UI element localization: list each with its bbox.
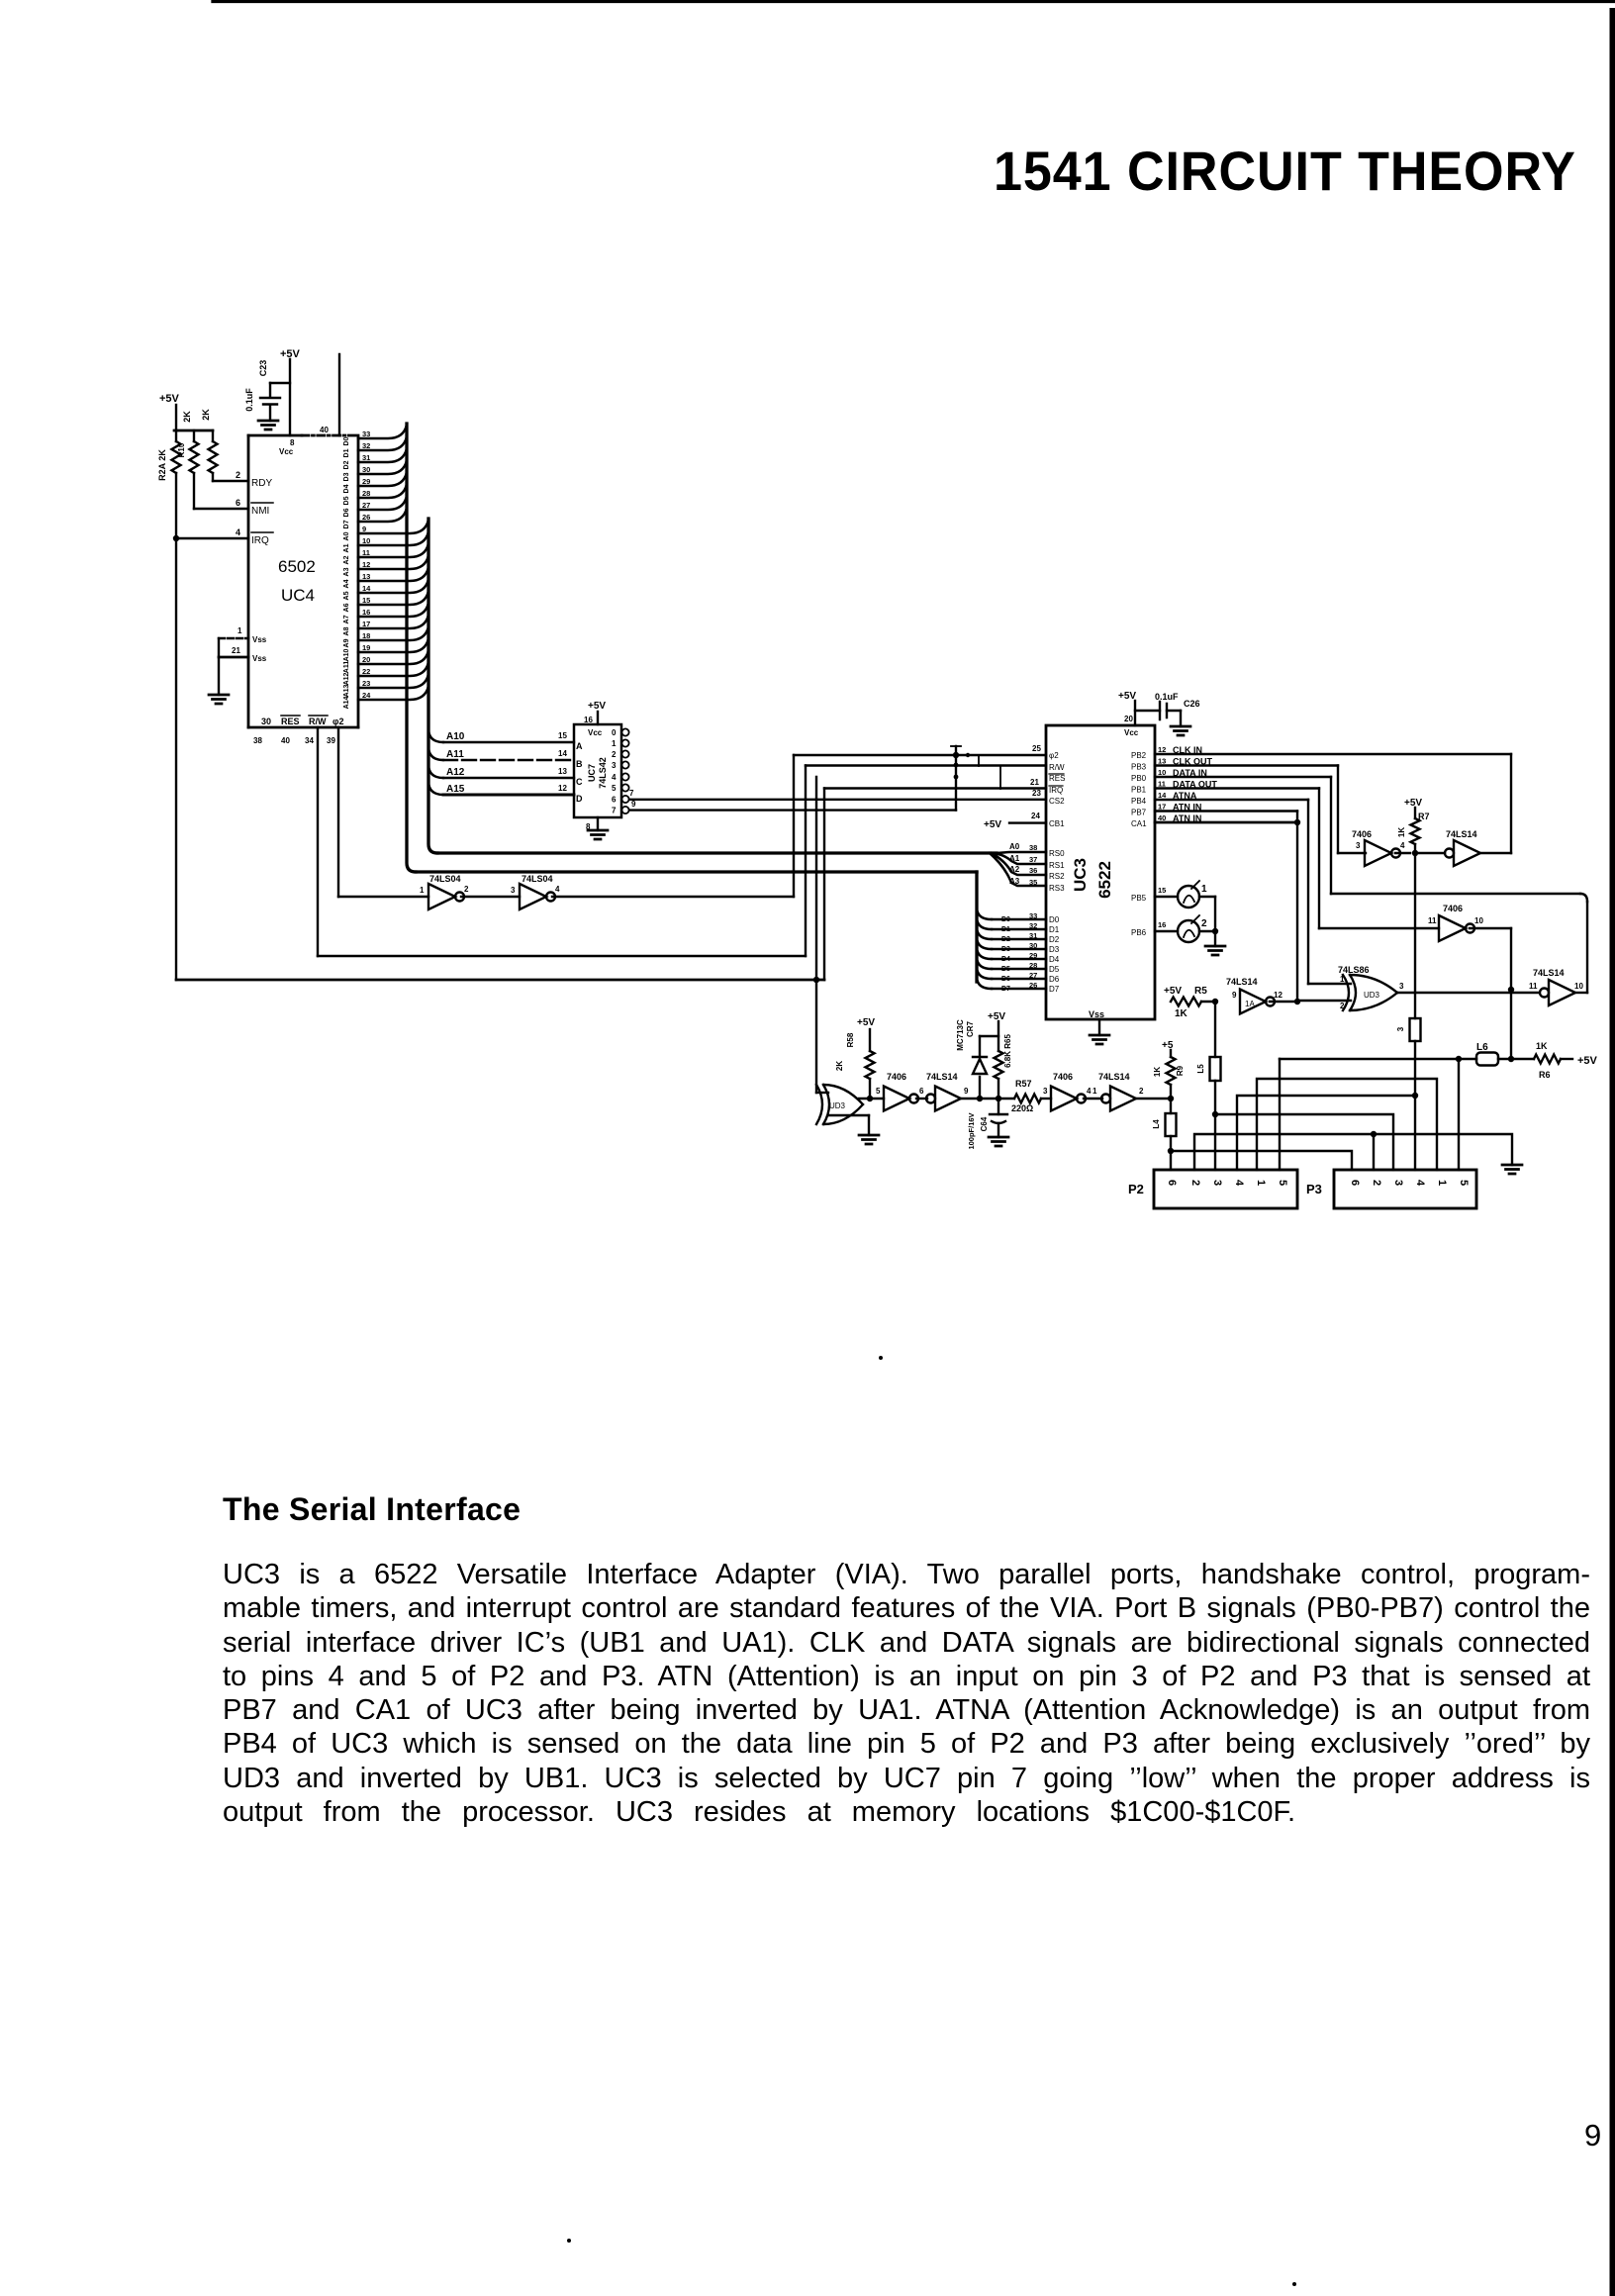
wire XOR output to 74LS14 <box>1397 992 1539 994</box>
svg-text:R6: R6 <box>1539 1070 1551 1080</box>
svg-text:D6: D6 <box>1001 976 1010 983</box>
svg-text:11: 11 <box>1158 780 1166 789</box>
svg-text:+5V: +5V <box>1118 691 1136 702</box>
wire P2 pin 1 drop <box>1170 1151 1172 1170</box>
svg-text:A: A <box>576 741 583 751</box>
wire data bus to UC3 <box>416 870 977 873</box>
svg-text:4: 4 <box>1400 841 1405 850</box>
svg-text:A6: A6 <box>343 603 350 612</box>
svg-text:RS1: RS1 <box>1049 861 1065 870</box>
svg-text:R10: R10 <box>177 442 186 457</box>
wire DATA node from 7406 <box>1470 927 1511 929</box>
svg-text:R7: R7 <box>1418 812 1430 821</box>
IC UC3 6522 <box>1046 725 1155 1019</box>
svg-text:2: 2 <box>1139 1087 1144 1096</box>
svg-text:L4: L4 <box>1152 1119 1161 1129</box>
svg-text:16: 16 <box>362 608 370 617</box>
svg-text:9: 9 <box>964 1087 969 1096</box>
svg-text:UC4: UC4 <box>281 586 315 605</box>
svg-text:A13: A13 <box>343 684 350 697</box>
svg-text:R5: R5 <box>1194 986 1207 997</box>
ground below C26 <box>1171 726 1190 735</box>
svg-text:B: B <box>576 759 583 769</box>
wire to UC4 pin 40 <box>338 354 340 435</box>
svg-text:10: 10 <box>362 536 370 545</box>
svg-text:30: 30 <box>362 465 370 474</box>
wire A15 to UC7 input D <box>428 781 443 795</box>
wire A11 to UC7 input B <box>428 746 443 760</box>
svg-text:P2: P2 <box>1128 1182 1144 1196</box>
svg-text:20: 20 <box>362 655 370 664</box>
svg-text:9: 9 <box>1232 991 1237 1000</box>
svg-text:A14: A14 <box>343 696 350 709</box>
wire DATA OUT UC3 PB1 to 7406 <box>1155 787 1319 789</box>
svg-text:23: 23 <box>1032 789 1041 798</box>
ground below UC4 VSS <box>209 695 229 704</box>
svg-text:9: 9 <box>631 800 636 809</box>
svg-text:13: 13 <box>1158 757 1166 766</box>
inverter UA1 74LS14 ATN receiver <box>1240 990 1266 1014</box>
svg-text:74LS86: 74LS86 <box>1338 965 1370 975</box>
svg-text:36: 36 <box>1029 866 1037 875</box>
svg-text:32: 32 <box>1029 921 1037 930</box>
svg-text:74LS14: 74LS14 <box>1098 1072 1130 1082</box>
svg-text:Vss: Vss <box>252 654 267 663</box>
svg-text:8: 8 <box>586 822 591 831</box>
svg-text:33: 33 <box>362 430 370 438</box>
svg-text:2: 2 <box>236 470 240 480</box>
svg-text:0: 0 <box>612 728 617 737</box>
svg-text:16: 16 <box>1158 920 1166 929</box>
svg-text:A8: A8 <box>343 626 350 635</box>
svg-text:10: 10 <box>1158 768 1166 777</box>
svg-text:28: 28 <box>362 489 370 498</box>
svg-text:PB3: PB3 <box>1131 763 1147 772</box>
svg-text:+5V: +5V <box>988 1011 1005 1022</box>
svg-text:D: D <box>576 794 583 804</box>
svg-text:12: 12 <box>558 784 567 793</box>
svg-text:Vss: Vss <box>1089 1009 1104 1019</box>
inverter UC5A 74LS04 <box>428 884 455 909</box>
svg-text:7406: 7406 <box>887 1072 906 1082</box>
svg-text:0.1uF: 0.1uF <box>244 388 254 412</box>
ground below UC3 <box>1090 1035 1109 1044</box>
svg-text:0.1uF: 0.1uF <box>1155 692 1179 702</box>
IC UC7 74LS42 <box>574 724 621 817</box>
svg-text:RS0: RS0 <box>1049 849 1065 858</box>
svg-text:A4: A4 <box>343 579 350 588</box>
svg-text:13: 13 <box>558 767 567 776</box>
wire DATA +5V rail with bead L6 and R6 <box>1280 1058 1476 1060</box>
wire <box>916 1098 927 1100</box>
svg-text:C26: C26 <box>1184 699 1200 709</box>
svg-text:21: 21 <box>1030 778 1039 787</box>
svg-text:20: 20 <box>1124 715 1133 723</box>
svg-text:+5V: +5V <box>1164 986 1182 997</box>
XOR gate UD3A 74LS86 <box>816 1085 863 1124</box>
svg-text:2K: 2K <box>201 409 211 421</box>
svg-text:40: 40 <box>320 426 329 434</box>
svg-text:16: 16 <box>584 716 593 724</box>
svg-text:R/W: R/W <box>1049 763 1065 772</box>
svg-text:7: 7 <box>629 789 634 798</box>
svg-text:8: 8 <box>290 438 295 447</box>
svg-text:D7: D7 <box>1001 986 1010 993</box>
svg-text:D0: D0 <box>1001 916 1010 923</box>
capacitor C64 100pF <box>997 1099 999 1114</box>
svg-text:34: 34 <box>305 736 314 745</box>
svg-text:39: 39 <box>327 736 335 745</box>
svg-text:29: 29 <box>1029 951 1037 960</box>
svg-text:+5V: +5V <box>1577 1055 1598 1067</box>
svg-text:32: 32 <box>362 441 370 450</box>
svg-text:35: 35 <box>1029 878 1037 887</box>
svg-text:3: 3 <box>612 761 617 770</box>
svg-text:6: 6 <box>1349 1180 1361 1186</box>
svg-text:11: 11 <box>1529 982 1538 991</box>
svg-text:A15: A15 <box>446 784 465 795</box>
svg-text:7406: 7406 <box>1443 904 1463 913</box>
ground below C64 <box>989 1137 1008 1146</box>
inverter UA1B 74LS14 <box>935 1087 961 1111</box>
svg-text:D4: D4 <box>343 484 350 493</box>
svg-text:1: 1 <box>1340 975 1345 984</box>
svg-text:74LS14: 74LS14 <box>926 1072 958 1082</box>
svg-text:24: 24 <box>362 691 371 700</box>
svg-text:R57: R57 <box>1015 1079 1032 1089</box>
svg-text:L5: L5 <box>1196 1064 1205 1074</box>
wire CLK OUT UC3 PB3 to 7406 <box>1155 764 1338 766</box>
inverter UC5B 74LS04 <box>520 884 546 909</box>
svg-text:A12: A12 <box>446 767 465 778</box>
svg-text:2: 2 <box>1340 1002 1345 1010</box>
svg-text:220Ω: 220Ω <box>1011 1103 1033 1113</box>
svg-text:74LS14: 74LS14 <box>1533 968 1565 978</box>
svg-text:3: 3 <box>1211 1180 1223 1186</box>
wire A10 to UC7 input A <box>428 728 443 742</box>
data bus vertical <box>407 424 416 872</box>
page right edge scan strip <box>1610 8 1615 2296</box>
svg-text:A1: A1 <box>343 543 350 552</box>
wire ATN to XOR input <box>1297 1000 1351 1002</box>
svg-text:74LS42: 74LS42 <box>598 757 608 789</box>
svg-text:L6: L6 <box>1476 1042 1488 1053</box>
svg-text:2: 2 <box>1371 1180 1382 1186</box>
svg-text:D4: D4 <box>1001 956 1010 963</box>
svg-text:1: 1 <box>237 626 242 635</box>
wire RDY pin 2 <box>212 473 214 481</box>
svg-text:30: 30 <box>1029 941 1037 950</box>
svg-text:PB5: PB5 <box>1131 894 1147 903</box>
svg-text:D1: D1 <box>1049 925 1060 934</box>
svg-text:23: 23 <box>362 679 370 688</box>
wire ATN IN vertical from UA1 <box>1296 812 1298 1003</box>
svg-text:3: 3 <box>1392 1180 1404 1186</box>
svg-text:MC713C: MC713C <box>956 1019 965 1051</box>
svg-text:CA1: CA1 <box>1131 819 1147 828</box>
svg-text:A11: A11 <box>343 661 350 674</box>
svg-text:6: 6 <box>236 498 240 508</box>
svg-text:1: 1 <box>1255 1180 1267 1186</box>
svg-text:15: 15 <box>1158 886 1166 895</box>
svg-text:PB7: PB7 <box>1131 809 1147 817</box>
wire D0-D7 fan from data bus to UC3 <box>975 872 978 982</box>
jumper arc D GND P2-P3 to ground <box>1194 1134 1512 1170</box>
svg-text:D7: D7 <box>343 520 350 528</box>
svg-text:A0: A0 <box>343 531 350 540</box>
svg-text:D1: D1 <box>1001 926 1010 933</box>
svg-text:40: 40 <box>281 736 290 745</box>
svg-text:1: 1 <box>1436 1180 1448 1186</box>
svg-text:D5: D5 <box>343 496 350 505</box>
svg-text:74LS04: 74LS04 <box>522 874 553 884</box>
wire UC3 pin 34 to XOR UD3A <box>815 777 817 1093</box>
svg-text:19: 19 <box>362 643 370 652</box>
svg-text:CB1: CB1 <box>1049 819 1065 828</box>
inverter UA1C 74LS14 <box>1110 1087 1136 1111</box>
svg-text:CS2: CS2 <box>1049 797 1065 806</box>
capacitor C26 0.1uF <box>1135 710 1160 712</box>
wire DATA drive node <box>1136 1098 1171 1100</box>
wire 74LS14 output up to PB2 <box>1480 852 1511 854</box>
svg-text:11: 11 <box>362 548 370 557</box>
inverter UB1A 7406 CLK driver <box>1365 840 1391 866</box>
svg-text:14: 14 <box>362 584 371 593</box>
svg-text:30: 30 <box>261 717 271 726</box>
svg-text:1: 1 <box>612 739 617 748</box>
svg-text:1K: 1K <box>1153 1067 1162 1077</box>
wire R/W UC4 to UC3 pin 22 <box>317 727 319 956</box>
wire IRQ UC4 to UC3 pin 21 <box>175 538 177 980</box>
svg-text:UD3: UD3 <box>1364 991 1380 1000</box>
svg-text:RES: RES <box>281 717 300 726</box>
svg-text:21: 21 <box>232 646 240 655</box>
inverter UB1B 74LS14 CLK receiver <box>1454 840 1480 866</box>
svg-text:D5: D5 <box>1049 965 1060 974</box>
svg-text:A2: A2 <box>343 555 350 564</box>
wire NMI pin 6 <box>193 473 195 509</box>
wire ATN IN UC3 PB7 <box>1155 810 1297 812</box>
svg-text:25: 25 <box>1032 744 1041 753</box>
inverter UB1D 74LS14 DATA receiver <box>1549 980 1575 1005</box>
svg-text:3: 3 <box>511 886 516 895</box>
svg-text:100pF/16V: 100pF/16V <box>967 1112 976 1149</box>
svg-text:PB4: PB4 <box>1131 797 1147 806</box>
svg-text:14: 14 <box>1158 791 1167 800</box>
svg-text:D0: D0 <box>1049 915 1060 924</box>
svg-text:UC7: UC7 <box>587 764 597 782</box>
svg-text:5: 5 <box>876 1087 881 1096</box>
IC 6502 UC4 <box>248 434 302 437</box>
svg-text:3: 3 <box>1399 982 1404 991</box>
svg-text:D7: D7 <box>1049 985 1060 994</box>
svg-text:9: 9 <box>362 525 366 533</box>
svg-text:26: 26 <box>1029 981 1037 990</box>
svg-text:D1: D1 <box>343 448 350 457</box>
inverter UB1F 7406 <box>1051 1087 1077 1111</box>
inverter UB1C 7406 DATA OUT driver <box>1439 915 1466 941</box>
svg-text:Vss: Vss <box>252 635 267 644</box>
svg-text:14: 14 <box>558 749 567 758</box>
wire P2 pin 5 to rail <box>1279 1059 1281 1170</box>
svg-text:UC3: UC3 <box>1071 858 1090 892</box>
svg-text:D4: D4 <box>1049 955 1060 964</box>
jumper arc B CLK P2-P3 <box>1237 1096 1415 1170</box>
svg-text:5: 5 <box>1277 1180 1288 1186</box>
capacitor C23 0.1uF <box>260 383 280 421</box>
svg-text:A0: A0 <box>1009 842 1020 851</box>
svg-text:31: 31 <box>362 453 370 462</box>
wire phi2 between inverters <box>461 896 520 898</box>
svg-text:1K: 1K <box>1397 827 1406 837</box>
svg-text:6.8K R65: 6.8K R65 <box>1003 1034 1012 1068</box>
wire IRQ pin 4 <box>175 473 177 538</box>
svg-text:IRQ: IRQ <box>1049 786 1063 795</box>
svg-text:P3: P3 <box>1306 1182 1322 1196</box>
svg-text:+5V: +5V <box>588 701 606 712</box>
svg-text:24: 24 <box>1031 812 1040 820</box>
svg-text:D6: D6 <box>343 508 350 517</box>
ground at XOR input <box>828 1114 869 1116</box>
svg-text:CR7: CR7 <box>966 1020 975 1037</box>
wire ATNA UC3 PB4 to XOR UD3 <box>1155 799 1308 801</box>
svg-text:6: 6 <box>1166 1180 1178 1186</box>
svg-text:29: 29 <box>362 477 370 486</box>
svg-text:RES: RES <box>1049 774 1065 783</box>
svg-text:7406: 7406 <box>1053 1072 1073 1082</box>
svg-text:+5V: +5V <box>1404 798 1422 809</box>
svg-text:C: C <box>576 777 583 787</box>
svg-text:D5: D5 <box>1001 966 1010 973</box>
jumper arc E DATA P2-P3 <box>1171 1151 1352 1170</box>
svg-text:7406: 7406 <box>1352 829 1372 839</box>
svg-text:2: 2 <box>1189 1180 1201 1186</box>
svg-text:C64: C64 <box>980 1116 989 1131</box>
wire P3 pin 2 gnd drop <box>1373 1134 1375 1170</box>
svg-text:Vcc: Vcc <box>588 728 603 737</box>
stray scan dot <box>879 1356 883 1360</box>
svg-text:2: 2 <box>1201 918 1207 929</box>
svg-text:D0: D0 <box>343 436 350 445</box>
svg-text:Vcc: Vcc <box>279 447 294 456</box>
svg-text:38: 38 <box>253 736 262 745</box>
svg-text:3: 3 <box>1043 1087 1048 1096</box>
UC4 VSS pins to ground <box>219 637 248 639</box>
ground at connectors <box>1502 1165 1522 1174</box>
resistor R11 2K <box>212 430 214 441</box>
wire RS0-RS3 fan from address bus <box>990 852 1046 886</box>
svg-text:15: 15 <box>362 596 370 605</box>
svg-text:1K: 1K <box>1536 1041 1548 1051</box>
XOR gate UD3B 74LS86 <box>1343 975 1397 1010</box>
inverter UB1E 7406 <box>884 1087 909 1111</box>
svg-text:D3: D3 <box>1001 946 1010 953</box>
address bus vertical <box>428 519 437 853</box>
svg-text:28: 28 <box>1029 961 1037 970</box>
svg-text:27: 27 <box>1029 971 1037 980</box>
svg-text:PB6: PB6 <box>1131 928 1147 937</box>
wire CLK IN UC3 PB2 from 74LS14 <box>1155 753 1511 755</box>
wire P3 pin 6 drop from rail <box>1458 1059 1460 1170</box>
svg-text:A3: A3 <box>1009 877 1020 886</box>
svg-text:27: 27 <box>362 501 370 510</box>
svg-text:2: 2 <box>612 750 617 759</box>
svg-text:3: 3 <box>1396 1026 1405 1031</box>
svg-text:38: 38 <box>1029 843 1037 852</box>
svg-text:RS2: RS2 <box>1049 872 1065 881</box>
svg-text:1: 1 <box>1201 884 1207 895</box>
jumper arc A SRQ P2-P3 <box>1257 1079 1437 1170</box>
svg-text:2K: 2K <box>182 411 192 423</box>
stray scan dot <box>567 2239 571 2243</box>
svg-text:φ2: φ2 <box>1049 751 1059 760</box>
resistor R2A 2K <box>175 430 177 441</box>
svg-text:74LS04: 74LS04 <box>429 874 461 884</box>
svg-text:D6: D6 <box>1049 975 1060 984</box>
ground below C23 <box>258 421 278 430</box>
svg-text:+5V: +5V <box>984 819 1001 830</box>
svg-text:D3: D3 <box>343 472 350 481</box>
svg-text:PB2: PB2 <box>1131 751 1147 760</box>
svg-text:10: 10 <box>1574 982 1583 991</box>
svg-text:R2A 2K: R2A 2K <box>157 449 167 481</box>
svg-text:R9: R9 <box>1176 1065 1185 1076</box>
svg-text:φ2: φ2 <box>332 717 343 726</box>
svg-text:Vcc: Vcc <box>1124 728 1139 737</box>
svg-text:11: 11 <box>1428 916 1437 925</box>
wire ATN IN UC3 CA1 <box>1155 821 1297 824</box>
diode CR7 MC713C <box>979 1077 981 1099</box>
svg-text:A2: A2 <box>1009 865 1020 874</box>
svg-text:A10: A10 <box>446 731 465 742</box>
svg-text:A7: A7 <box>343 615 350 623</box>
address bus A0-A14 pin stubs UC4 <box>358 520 428 533</box>
svg-text:18: 18 <box>362 631 370 640</box>
data bus D0-D7 pin stubs UC4 <box>358 425 407 438</box>
svg-text:+5V: +5V <box>857 1017 875 1028</box>
svg-text:A3: A3 <box>343 567 350 576</box>
resistor R10 2K <box>193 430 195 441</box>
ground below UC7 pin 8 <box>597 817 599 830</box>
inductor L5 ferrite bead <box>1210 1057 1221 1081</box>
svg-text:PB1: PB1 <box>1131 786 1147 795</box>
svg-text:RS3: RS3 <box>1049 884 1065 893</box>
svg-text:3: 3 <box>1356 841 1361 850</box>
svg-text:15: 15 <box>558 731 567 740</box>
svg-text:D3: D3 <box>1049 945 1060 954</box>
svg-text:R58: R58 <box>846 1032 855 1047</box>
svg-text:C23: C23 <box>258 360 268 377</box>
svg-text:12: 12 <box>1158 745 1166 754</box>
svg-text:RDY: RDY <box>251 478 272 489</box>
wire XOR output <box>859 1098 884 1100</box>
svg-text:31: 31 <box>1029 931 1037 940</box>
svg-text:D2: D2 <box>343 460 350 469</box>
inductor L4 ferrite bead <box>1170 1099 1172 1113</box>
jumper arc C ATN P2-P3 <box>1215 1114 1393 1170</box>
svg-text:10: 10 <box>1474 916 1483 925</box>
wire DATA IN UC3 PB0 from 74LS14 <box>1155 776 1331 778</box>
wire stub between clock rows <box>978 755 980 766</box>
svg-text:4: 4 <box>236 527 240 537</box>
svg-text:4: 4 <box>555 885 560 894</box>
svg-text:7: 7 <box>612 807 617 815</box>
svg-text:6522: 6522 <box>1095 861 1114 899</box>
svg-text:NMI: NMI <box>251 506 269 517</box>
svg-text:74LS14: 74LS14 <box>1226 977 1258 987</box>
svg-text:1: 1 <box>1092 1087 1097 1096</box>
wire <box>961 1098 1014 1100</box>
